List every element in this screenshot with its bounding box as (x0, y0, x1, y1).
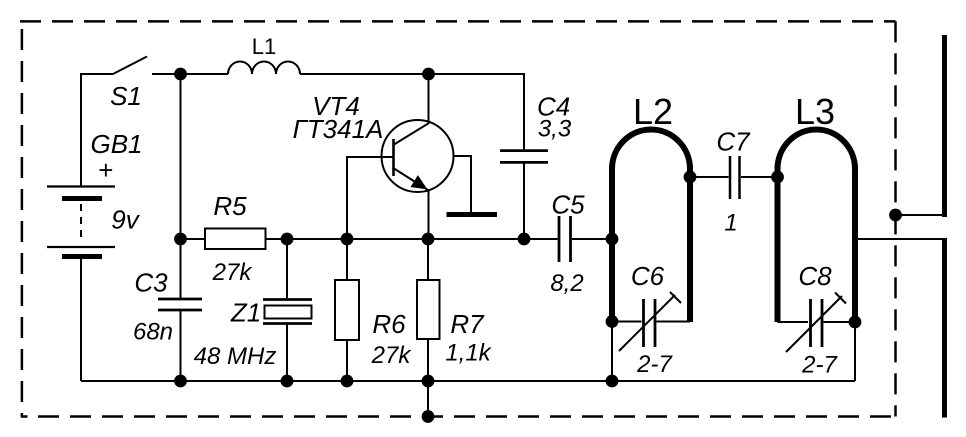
svg-text:L3: L3 (795, 91, 835, 132)
wire Z1 branch upper (286, 239, 288, 298)
node top of C3 branch (174, 68, 187, 81)
wire C6 left lead (612, 321, 642, 323)
wire Z1 to bottom rail (286, 325, 288, 382)
svg-text:9v: 9v (111, 205, 140, 235)
wire C4 bottom lead (523, 164, 525, 240)
inductor L1 (228, 62, 300, 75)
wire L2 left leg to bottom rail (611, 322, 613, 381)
wire battery positive riser (81, 74, 113, 186)
node Z1 branch (281, 233, 294, 246)
svg-text:C7: C7 (716, 127, 751, 157)
svg-text:L1: L1 (252, 34, 276, 59)
svg-text:1,1k: 1,1k (445, 340, 492, 367)
wire battery negative to bottom rail (80, 257, 82, 381)
svg-text:8,2: 8,2 (550, 270, 583, 297)
svg-text:+: + (98, 155, 113, 185)
capacitor C7 (730, 156, 740, 199)
wire R6 to bottom rail (346, 340, 348, 381)
node C8 on L3 right leg (849, 316, 862, 329)
capacitor C8 trimmer (786, 293, 846, 353)
svg-text:R5: R5 (213, 191, 247, 221)
node base branch on middle rail (341, 233, 354, 246)
svg-text:ГТ341А: ГТ341А (293, 114, 384, 144)
node middle rail at C3 branch (174, 233, 187, 246)
ground bar case (447, 212, 498, 217)
node common on shield (422, 410, 435, 423)
crystal Z1 (263, 300, 312, 324)
wire C8 left lead (778, 321, 809, 323)
svg-text:C6: C6 (631, 261, 665, 291)
resistor R5 (205, 229, 266, 250)
node C5 at L2 left leg (606, 233, 619, 246)
node C7 on L3 left leg (771, 171, 784, 184)
wire common to shield stub (427, 381, 429, 417)
capacitor C4 (500, 151, 548, 163)
wire middle rail to R5 (181, 238, 206, 240)
wire L3 right leg to bottom rail (854, 322, 856, 381)
wire S1 to L1 (152, 73, 228, 75)
battery GB1 (47, 187, 115, 257)
svg-text:C8: C8 (798, 261, 832, 291)
resistor R6 (335, 280, 359, 340)
inductor L2 (612, 130, 690, 323)
node C4 on middle rail (518, 233, 531, 246)
wire C7 right lead (741, 176, 778, 178)
inductor L3 (778, 130, 856, 323)
switch S1 lever (113, 57, 147, 75)
svg-text:C3: C3 (134, 268, 168, 298)
wire R5 to C5 (middle rail) (266, 238, 558, 240)
svg-text:2-7: 2-7 (801, 352, 838, 379)
wire bottom rail (81, 380, 855, 382)
wire C7 left lead (690, 176, 729, 178)
wire C8 right lead (824, 321, 856, 323)
node emitter on middle rail (422, 233, 435, 246)
svg-text:L2: L2 (633, 91, 673, 132)
svg-text:27k: 27k (371, 342, 413, 369)
wire R7 top lead (427, 239, 429, 280)
capacitor C5 (559, 216, 571, 262)
capacitor C6 trimmer (619, 292, 681, 351)
node bottom rail Z1 (281, 375, 294, 388)
antenna upper element (942, 35, 947, 217)
node bottom rail C3 (174, 375, 187, 388)
svg-text:C5: C5 (551, 189, 585, 219)
wire antenna lower feed (855, 238, 942, 240)
wire C3 branch vertical upper (180, 74, 182, 299)
svg-text:R7: R7 (450, 309, 485, 339)
node bottom rail R7 (422, 375, 435, 388)
svg-text:2-7: 2-7 (636, 351, 673, 378)
node antenna feed on shield (889, 209, 902, 222)
svg-text:27k: 27k (212, 259, 254, 286)
wire C5 to L2 (572, 238, 612, 240)
capacitor C3 (158, 299, 202, 310)
node collector junction (422, 68, 435, 81)
node C7 on L2 right leg (684, 171, 697, 184)
svg-text:1: 1 (724, 210, 737, 237)
svg-text:R6: R6 (372, 309, 406, 339)
wire C3 to bottom rail (180, 311, 182, 382)
wire base branch (347, 157, 393, 239)
svg-text:48 MHz: 48 MHz (194, 343, 277, 370)
resistor R7 (417, 280, 440, 339)
wire emitter vertical (428, 190, 430, 239)
wire collector vertical (428, 74, 430, 124)
svg-text:3,3: 3,3 (538, 116, 572, 143)
wire L1 to C4 corner (top rail) (300, 74, 524, 150)
svg-text:Z1: Z1 (230, 298, 261, 328)
wire R6 top lead (346, 239, 348, 280)
wire C6 right lead (657, 321, 691, 323)
wire transistor case lead (454, 156, 472, 212)
node bottom rail L2 (606, 375, 619, 388)
wire R7 to bottom rail (427, 339, 429, 381)
antenna lower element (942, 238, 947, 418)
svg-text:68n: 68n (133, 319, 173, 346)
svg-text:S1: S1 (110, 81, 142, 111)
node bottom rail R6 (341, 375, 354, 388)
node C6 left on L2 left leg (606, 315, 619, 328)
transistor VT4 (382, 120, 454, 192)
wire antenna upper feed (896, 214, 943, 216)
